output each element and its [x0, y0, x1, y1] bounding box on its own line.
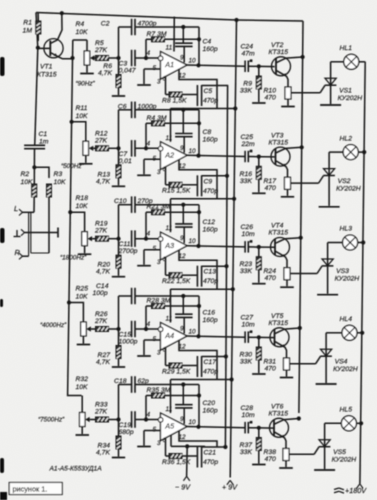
label frequency [76, 81, 96, 88]
svg-text:“1800Hz”: “1800Hz” [60, 255, 87, 262]
node feedback-output junction ch2 [197, 121, 201, 125]
label VT4 KT315 [269, 223, 289, 237]
svg-text:R25: R25 [76, 286, 89, 293]
svg-text:9: 9 [180, 416, 184, 423]
label C19 680p [119, 422, 134, 436]
wire screened pair [29, 212, 49, 256]
resistor R6 [116, 58, 121, 95]
svg-text:A3: A3 [164, 241, 174, 250]
label pin 12 [179, 344, 187, 351]
svg-text:0,01: 0,01 [119, 158, 132, 165]
wire pin5 ground [144, 431, 161, 446]
power terminal +9V [222, 480, 238, 491]
label R6 [98, 63, 112, 77]
capacitor C11 [132, 230, 135, 247]
svg-text:1m: 1m [39, 139, 49, 146]
svg-text:10: 10 [189, 329, 197, 336]
label pin 10 [189, 238, 197, 245]
ground thyristor [316, 383, 337, 385]
label R36 1,5K [162, 459, 191, 466]
svg-text:VS4: VS4 [335, 359, 348, 366]
label A1-A5 type [49, 466, 103, 473]
node collector rail junction ch1 [301, 55, 305, 59]
svg-text:1M: 1M [23, 28, 33, 35]
ground pin5 [137, 174, 151, 176]
svg-text:10: 10 [189, 58, 197, 65]
label R15 1,5K [162, 188, 191, 195]
wire left input bus [35, 13, 38, 144]
svg-text:C20: C20 [203, 400, 216, 407]
svg-text:1000p: 1000p [138, 103, 157, 110]
svg-text:C19: C19 [119, 422, 132, 429]
lamp HL5 [325, 416, 362, 431]
label C6 1000p [118, 103, 157, 110]
label VS2 KU202N [336, 178, 361, 193]
capacitor C13 correction [197, 266, 226, 287]
capacitor C27 [245, 330, 252, 343]
svg-text:− 9V: − 9V [175, 483, 191, 492]
label R3 10K [54, 171, 67, 186]
wire node to op-amp [135, 328, 159, 330]
capacitor C6 [119, 102, 200, 156]
ground input node [112, 276, 125, 278]
capacitor C9 correction [197, 175, 227, 196]
capacitor C16 [175, 296, 193, 334]
node feedback-output junction ch5 [197, 393, 201, 397]
capacitor C5 correction [197, 85, 227, 106]
label R7 3M [147, 31, 167, 38]
svg-text:C15: C15 [119, 332, 132, 339]
svg-text:4: 4 [147, 50, 151, 57]
ground emitter resistor [280, 286, 294, 288]
node lamp rail junction ch3 [361, 240, 365, 244]
svg-text:HL3: HL3 [340, 226, 353, 233]
node comp tap ch3 [181, 203, 185, 207]
resistor R8 correction [166, 76, 198, 97]
svg-text:33K: 33K [240, 449, 253, 456]
capacitor C2 [119, 19, 200, 66]
input terminal L [14, 204, 34, 216]
svg-text:КТ315: КТ315 [269, 49, 289, 56]
wire pin5 ground [144, 159, 161, 174]
svg-text:10m: 10m [242, 231, 256, 238]
node boundary rail junction ch3 [231, 287, 235, 291]
svg-text:R2: R2 [21, 171, 30, 178]
resistor R26 [91, 327, 119, 332]
svg-text:C14: C14 [96, 283, 109, 290]
node comp tap ch1 [181, 25, 185, 29]
node C1/R2/R3 junction [32, 165, 36, 169]
svg-text:9: 9 [180, 235, 184, 242]
label pin 4 [147, 231, 151, 238]
label pin 4 [147, 50, 151, 57]
label C28 10m [241, 405, 256, 419]
node lamp rail junction ch2 [362, 150, 366, 154]
node rail B top [234, 18, 238, 22]
capacitor C12 [175, 205, 193, 244]
resistor R24 [284, 268, 290, 287]
wire pin11 supply [170, 199, 172, 233]
label pin 3 [157, 440, 161, 447]
svg-text:4: 4 [147, 231, 151, 238]
label VS4 KU202N [333, 359, 358, 374]
label C24 47m [241, 44, 256, 58]
lamp HL2 [329, 145, 364, 160]
transistor VT3 [271, 147, 302, 180]
node input node ch3 [116, 237, 120, 241]
svg-text:27K: 27K [94, 228, 108, 235]
label C25 22m [241, 134, 256, 148]
label C11 2700p [118, 241, 138, 255]
svg-text:R32: R32 [76, 376, 89, 383]
label R35 3M [147, 387, 171, 394]
svg-text:КТ315: КТ315 [269, 139, 289, 146]
op-amp A4 [158, 323, 187, 351]
label R31 470 [264, 359, 277, 373]
ground thyristor [314, 469, 335, 471]
node input node ch5 [116, 417, 120, 421]
resistor R34 [116, 420, 121, 457]
label pin 11 [166, 316, 173, 323]
node feedback-output junction ch4 [197, 304, 201, 308]
svg-text:“90Hz”: “90Hz” [76, 81, 96, 88]
svg-text:C6: C6 [118, 103, 127, 110]
svg-text:R5: R5 [95, 40, 104, 47]
resistor R23 [256, 247, 261, 283]
svg-text:C13: C13 [204, 269, 217, 276]
label pin 9 [180, 416, 184, 423]
thyristor VS2 [323, 152, 335, 206]
svg-text:2700p: 2700p [118, 248, 138, 255]
label R10 470 [264, 88, 277, 102]
svg-text:КТ315: КТ315 [269, 320, 289, 327]
label VT1 KT315 [37, 64, 57, 79]
svg-text:R15 1,5K: R15 1,5K [162, 188, 191, 195]
label C16 160p [203, 310, 218, 325]
svg-text:R13: R13 [98, 171, 111, 178]
label pin 11 [166, 225, 173, 232]
ground pot [76, 434, 90, 436]
wire output row [187, 246, 275, 248]
node output junction ch4 [196, 334, 200, 338]
label VT3 KT315 [269, 132, 289, 146]
resistor R5 [95, 56, 119, 61]
svg-text:9: 9 [180, 326, 184, 333]
wire op-amp supply rail A [225, 85, 227, 447]
svg-text:HL5: HL5 [340, 407, 353, 414]
label pin 9 [180, 145, 184, 152]
svg-text:R6: R6 [103, 63, 112, 70]
node feedback tap ch5 [144, 417, 148, 421]
label R20 [96, 262, 110, 276]
svg-text:47m: 47m [242, 51, 256, 58]
svg-text:33K: 33K [240, 178, 253, 185]
svg-text:R19: R19 [95, 221, 108, 228]
label pin 10 [189, 329, 197, 336]
wire pin5 ground [144, 250, 161, 265]
svg-text:VT3: VT3 [271, 132, 284, 139]
wire pin12 jog [179, 250, 217, 290]
node collector rail junction ch5 [297, 416, 301, 420]
svg-text:A2: A2 [164, 151, 174, 160]
transistor VT6 [270, 418, 299, 451]
label C10 270p [114, 198, 153, 205]
label pin 5 [153, 336, 157, 343]
node input node ch1 [116, 56, 120, 60]
svg-text:КУ202Н: КУ202Н [336, 185, 361, 192]
node VT1 base junction [36, 46, 40, 50]
ground base resistor [252, 373, 266, 375]
ground thyristor [319, 206, 340, 208]
potentiometer R18 [82, 232, 92, 254]
label pin 9 [180, 235, 184, 242]
wire collector rail [299, 21, 303, 413]
label R30 33K [240, 352, 253, 366]
thyristor VS4 [320, 333, 332, 383]
scan artifact 4 [0, 458, 4, 473]
node pot bus junction ch2 [70, 120, 74, 124]
node comp tap ch2 [181, 108, 185, 112]
wire pot branch [81, 396, 83, 413]
svg-text:R10: R10 [264, 88, 277, 95]
svg-text:R16: R16 [240, 171, 253, 178]
svg-text:27K: 27K [94, 137, 108, 144]
svg-text:R4 3M: R4 3M [147, 115, 167, 122]
ground pin5 [137, 355, 151, 357]
ground base resistor [252, 102, 266, 104]
svg-text:10K: 10K [54, 179, 67, 186]
svg-text:R38: R38 [264, 449, 277, 456]
ground input node [112, 185, 125, 187]
svg-text:3: 3 [157, 169, 161, 176]
svg-text:“7500Hz”: “7500Hz” [38, 417, 65, 424]
op-amp A3 [158, 232, 187, 260]
wire node to op-amp [135, 147, 159, 149]
svg-text:C16: C16 [203, 310, 216, 317]
svg-text:27K: 27K [94, 47, 108, 54]
wire pot branch [70, 212, 84, 232]
svg-text:R20: R20 [98, 262, 111, 269]
node boundary rail junction ch1 [233, 106, 237, 110]
label C3 0,047 [119, 61, 136, 75]
label C1 1m [39, 131, 49, 146]
svg-text:VS3: VS3 [336, 268, 349, 275]
label figure box [9, 483, 62, 495]
wire top +9V rail [36, 13, 303, 22]
svg-text:R11: R11 [76, 105, 88, 112]
ground thyristor [320, 104, 341, 106]
wire pin11 supply [170, 380, 172, 414]
svg-text:R12: R12 [95, 130, 108, 137]
label R19 27K [94, 221, 108, 235]
svg-text:4,7K: 4,7K [98, 70, 112, 77]
label R38 470 [264, 449, 277, 463]
label HL2 [340, 135, 353, 142]
resistor R10 [285, 87, 291, 106]
svg-text:R17: R17 [264, 178, 277, 185]
label C13 470p [203, 269, 218, 286]
svg-text:рисунок 1.: рисунок 1. [13, 485, 48, 494]
svg-text:1000p: 1000p [119, 339, 138, 346]
resistor R36 correction [166, 438, 198, 459]
label pin 6 [163, 256, 167, 263]
label C4 160p [203, 39, 218, 54]
label pin 9 [180, 326, 184, 333]
label R4 3M [147, 115, 167, 122]
node VT1 emitter junction [70, 56, 74, 60]
svg-text:C1: C1 [39, 131, 48, 138]
svg-text:160p: 160p [203, 227, 218, 234]
scan artifact 3 [0, 299, 3, 307]
svg-text:R1: R1 [23, 20, 32, 27]
label HL4 [340, 316, 353, 323]
label pin 6 [163, 437, 167, 444]
label R11 10K [76, 105, 89, 120]
svg-text:22m: 22m [241, 141, 256, 148]
capacitor C28 [245, 421, 252, 434]
wire pin12 jog [179, 69, 217, 109]
label VS3 KU202N [335, 268, 360, 283]
label R2 10K [21, 171, 34, 186]
label R37 33K [240, 442, 253, 456]
node base junction ch3 [257, 245, 261, 249]
label R12 27K [94, 130, 108, 144]
svg-text:C4: C4 [203, 39, 212, 46]
node feedback tap ch4 [144, 327, 148, 331]
resistor R33 [90, 417, 119, 422]
svg-text:680p: 680p [119, 429, 134, 436]
capacitor C10 [119, 196, 200, 246]
resistor R17 [285, 177, 291, 196]
wire lamp rail [360, 62, 365, 484]
ground pin5 [137, 265, 151, 267]
svg-text:10m: 10m [242, 412, 256, 419]
svg-text:3: 3 [157, 259, 161, 266]
svg-text:HL2: HL2 [340, 135, 353, 142]
input terminal common [14, 228, 59, 238]
label pin 4 [147, 140, 151, 147]
svg-text:HL4: HL4 [340, 316, 353, 323]
svg-text:R24: R24 [264, 268, 277, 275]
wire to R3 [34, 167, 49, 178]
svg-text:160p: 160p [203, 46, 218, 53]
svg-text:R26: R26 [95, 311, 108, 318]
svg-text:3: 3 [157, 440, 161, 447]
node collector rail junction ch3 [299, 236, 303, 240]
node lamp rail junction ch4 [360, 331, 364, 335]
wire gate [290, 356, 321, 364]
svg-text:VS1: VS1 [339, 88, 352, 95]
svg-text:10K: 10K [76, 294, 89, 301]
svg-text:C17: C17 [204, 359, 217, 366]
svg-text:27K: 27K [94, 318, 108, 325]
wire boundary supply [171, 288, 233, 290]
label pin 5 [153, 155, 157, 162]
label C7 0,01 [119, 151, 132, 165]
node base junction ch4 [257, 335, 261, 339]
svg-text:R35 3M: R35 3M [147, 387, 171, 394]
label C17 470p [203, 359, 218, 376]
resistor R4 feedback [146, 121, 199, 149]
svg-text:VT1: VT1 [40, 64, 53, 71]
node boundary rail junction ch4 [230, 377, 234, 381]
svg-text:+ 9V: + 9V [222, 483, 238, 492]
potentiometer R32 [80, 413, 90, 435]
label pin 12 [179, 434, 187, 441]
svg-text:27K: 27K [94, 409, 108, 416]
svg-text:R18: R18 [76, 195, 89, 202]
node correction rail junction ch4 [224, 354, 228, 358]
svg-text:C21: C21 [204, 450, 217, 457]
label HL3 [340, 226, 353, 233]
thyristor VS3 [322, 243, 334, 294]
svg-text:“500Hz”: “500Hz” [61, 163, 85, 170]
svg-text:C5: C5 [204, 88, 213, 95]
svg-text:R7 3M: R7 3M [147, 31, 167, 38]
resistor R15 correction [166, 167, 198, 188]
label R23 33K [240, 261, 253, 275]
svg-text:33K: 33K [240, 359, 253, 366]
resistor R9 [256, 66, 261, 102]
svg-text:VS5: VS5 [333, 449, 346, 456]
capacitor C21 correction [197, 447, 225, 468]
label R13 [96, 171, 110, 185]
op-amp A2 [158, 142, 187, 170]
svg-text:470p: 470p [203, 459, 218, 466]
node output junction ch5 [196, 425, 200, 429]
label R26 27K [94, 311, 108, 325]
label R33 27K [94, 402, 108, 416]
label R34 [96, 443, 110, 457]
svg-text:КТ315: КТ315 [269, 411, 289, 418]
resistor R7 feedback [146, 37, 199, 58]
ground input node [112, 95, 125, 97]
svg-text:470: 470 [265, 456, 277, 463]
resistor R19 [92, 236, 118, 241]
svg-text:R22 1,5K: R22 1,5K [162, 278, 191, 285]
svg-text:4: 4 [147, 412, 151, 419]
svg-text:470p: 470p [203, 278, 218, 285]
svg-text:R29 1,5K: R29 1,5K [162, 368, 191, 375]
svg-text:4,7K: 4,7K [96, 269, 110, 276]
svg-text:4,7K: 4,7K [96, 450, 110, 457]
svg-text:VT6: VT6 [271, 404, 284, 411]
node comp tap ch5 [181, 382, 185, 386]
ground emitter resistor [281, 106, 295, 108]
capacitor C15 [132, 321, 135, 337]
resistor R29 correction [166, 347, 198, 368]
svg-text:КУ202Н: КУ202Н [333, 366, 358, 373]
svg-text:R3: R3 [54, 171, 63, 178]
label pin 10 [189, 58, 197, 65]
ground emitter resistor [281, 196, 294, 198]
svg-text:R8 1,5K: R8 1,5K [162, 97, 187, 104]
ground input node [112, 457, 125, 459]
svg-text:R27: R27 [98, 352, 111, 359]
label R28 3M [147, 298, 171, 305]
svg-text:C26: C26 [241, 224, 254, 231]
op-amp A5 [158, 413, 187, 441]
lamp HL3 [328, 235, 364, 250]
label pin 3 [157, 350, 161, 357]
svg-text:R: R [15, 248, 21, 257]
node collector rail junction ch2 [300, 145, 304, 149]
svg-text:470: 470 [265, 275, 277, 282]
label pin 5 [153, 427, 157, 434]
svg-text:470: 470 [265, 95, 277, 102]
node correction rail junction ch5 [223, 445, 227, 449]
svg-text:HL1: HL1 [340, 45, 353, 52]
